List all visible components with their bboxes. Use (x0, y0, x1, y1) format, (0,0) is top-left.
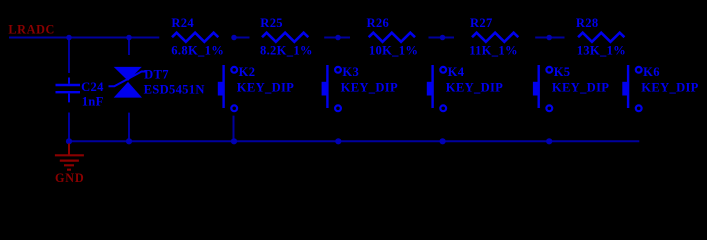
svg-text:KEY_DIP: KEY_DIP (237, 81, 294, 95)
svg-text:11K_1%: 11K_1% (469, 43, 518, 57)
svg-text:1nF: 1nF (82, 94, 104, 108)
svg-text:R26: R26 (367, 16, 390, 30)
svg-text:KEY_DIP: KEY_DIP (446, 81, 503, 95)
svg-text:R28: R28 (576, 16, 599, 30)
svg-text:6.8K_1%: 6.8K_1% (171, 43, 224, 57)
svg-text:K3: K3 (342, 65, 359, 79)
svg-text:KEY_DIP: KEY_DIP (552, 81, 609, 95)
svg-text:ESD5451N: ESD5451N (144, 83, 205, 97)
svg-text:K5: K5 (554, 65, 571, 79)
svg-text:K6: K6 (643, 65, 660, 79)
svg-text:13K_1%: 13K_1% (577, 43, 626, 57)
svg-text:DT7: DT7 (144, 67, 169, 81)
svg-text:KEY_DIP: KEY_DIP (341, 81, 398, 95)
svg-text:R25: R25 (260, 16, 283, 30)
svg-text:R27: R27 (470, 16, 493, 30)
svg-text:GND: GND (55, 171, 84, 185)
svg-text:C24: C24 (81, 80, 104, 94)
svg-text:KEY_DIP: KEY_DIP (641, 81, 698, 95)
svg-text:8.2K_1%: 8.2K_1% (260, 43, 313, 57)
svg-text:R24: R24 (171, 16, 194, 30)
svg-text:K4: K4 (448, 65, 465, 79)
svg-text:10K_1%: 10K_1% (369, 43, 418, 57)
svg-text:K2: K2 (239, 65, 256, 79)
svg-text:LRADC: LRADC (8, 22, 55, 36)
